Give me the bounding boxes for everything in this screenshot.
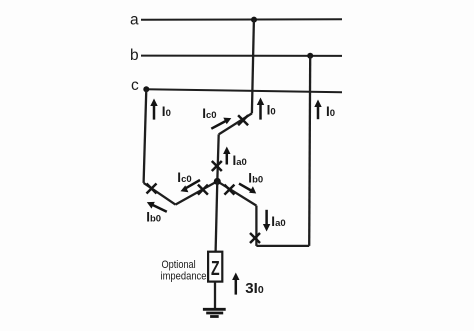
svg-text:c: c: [131, 77, 139, 94]
winding polarity mark X left of star node: [198, 185, 208, 195]
current arrow Ia0 (right winding, down): [263, 210, 286, 232]
svg-text:b: b: [130, 47, 139, 64]
svg-text:Optional: Optional: [162, 259, 196, 271]
winding polarity mark X on left winding: [147, 184, 157, 194]
wire: star node down to impedance: [216, 181, 218, 251]
current arrow I0 (middle riser): [257, 98, 276, 120]
phase a bus line: [141, 18, 342, 21]
wire: bottom horizontal to phase b riser: [256, 245, 309, 247]
wire: phase c tap down left side: [144, 89, 147, 183]
current arrow I0 (right riser): [314, 100, 335, 120]
winding polarity mark X right of star node: [224, 185, 234, 195]
winding polarity mark X on upper middle diagonal: [238, 115, 248, 125]
current arrow Ic0 (upper, pointing NE): [202, 106, 231, 129]
phase b bus line: [141, 55, 342, 57]
star node junction dot: [214, 178, 221, 185]
ground: [203, 309, 226, 316]
winding polarity mark X on middle vertical: [212, 161, 222, 171]
current arrow Ib0 (right of node, pointing SE): [239, 170, 263, 193]
node dot on phase c: [143, 86, 149, 92]
wire: impedance to ground: [214, 282, 216, 309]
wire: phase b riser: [309, 56, 310, 246]
wire: right winding vertical segment: [255, 206, 257, 246]
wire: left winding diagonal up to star node: [175, 181, 217, 204]
node dot on phase a: [251, 17, 257, 23]
wire: right winding diagonal down from star node: [217, 181, 256, 205]
current arrow Ic0 (left of node, pointing SW): [177, 170, 200, 192]
svg-text:Z: Z: [211, 258, 220, 280]
svg-text:impedance: impedance: [161, 271, 207, 283]
wire: middle winding vertical to star node: [217, 134, 218, 181]
wire: middle winding upper diagonal: [219, 113, 252, 134]
current arrow Ia0 (middle, up): [223, 147, 247, 169]
current arrow Ib0 (lower left, pointing NW): [146, 202, 167, 225]
wire: left winding lower diagonal: [144, 183, 176, 205]
current arrow 3I0 (ground return, up): [232, 273, 264, 298]
current arrow I0 (left riser): [150, 99, 171, 120]
node dot on phase b: [307, 53, 313, 59]
wire: phase a tap down to middle winding: [252, 20, 254, 114]
svg-text:a: a: [130, 11, 139, 28]
winding polarity mark X on right vertical segment: [250, 233, 260, 243]
impedance Z box: [208, 252, 222, 282]
phase c bus line: [146, 89, 342, 92]
